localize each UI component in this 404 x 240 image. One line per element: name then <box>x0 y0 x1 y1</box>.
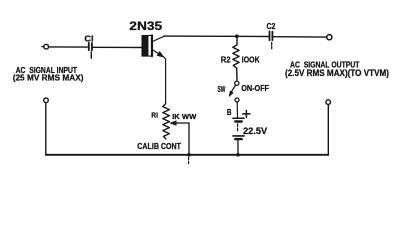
input lower terminal <box>44 98 49 103</box>
collector lead <box>153 36 165 41</box>
svg-text:IK WW: IK WW <box>172 114 197 121</box>
junction dot wiper-rail <box>187 153 191 157</box>
svg-text:R2: R2 <box>221 54 231 64</box>
wire lower-right down <box>327 104 329 154</box>
switch blade <box>230 86 235 94</box>
svg-text:B: B <box>227 107 232 117</box>
svg-text:CALIB CONT: CALIB CONT <box>137 141 181 151</box>
wire C1 to base <box>93 46 141 48</box>
output terminal top-right <box>327 35 332 40</box>
svg-text:2N35: 2N35 <box>129 19 162 33</box>
output lower terminal <box>326 100 331 105</box>
svg-text:ON-OFF: ON-OFF <box>241 84 269 93</box>
svg-text:(2.5V RMS MAX)(TO VTVM): (2.5V RMS MAX)(TO VTVM) <box>285 68 389 78</box>
potentiometer R1 <box>163 104 170 139</box>
wire lower-left down <box>45 103 47 155</box>
wire wiper down <box>188 123 190 155</box>
R1 wiper arrow <box>174 122 189 124</box>
node R2 junction dot <box>235 34 239 38</box>
capacitor C2 <box>269 31 271 40</box>
switch SW lower contact <box>235 98 239 102</box>
svg-text:C2: C2 <box>267 22 276 31</box>
resistor R2 <box>233 37 239 81</box>
battery B <box>233 117 244 119</box>
svg-text:CI: CI <box>84 34 93 44</box>
wire switch to battery <box>236 102 238 118</box>
svg-text:22.5V: 22.5V <box>243 126 268 137</box>
wire C2 to output <box>274 36 327 38</box>
svg-text:SW: SW <box>218 85 226 94</box>
junction dot battery-rail <box>236 153 240 157</box>
switch SW top contact <box>235 81 239 85</box>
bottom rail <box>46 154 329 156</box>
svg-text:IOOK: IOOK <box>242 54 260 64</box>
svg-text:(25 MV RMS MAX): (25 MV RMS MAX) <box>13 73 84 83</box>
battery B plus sign <box>243 113 250 115</box>
capacitor C1 <box>88 43 90 50</box>
dashed stub below rail <box>188 158 190 164</box>
emitter lead with arrow <box>153 50 166 104</box>
top wire collector to C2 <box>164 35 269 37</box>
input terminal top-left <box>42 46 44 48</box>
transistor Q1 2N35 <box>142 35 148 57</box>
svg-text:RI: RI <box>151 112 158 119</box>
wire input to C1 <box>49 46 88 48</box>
